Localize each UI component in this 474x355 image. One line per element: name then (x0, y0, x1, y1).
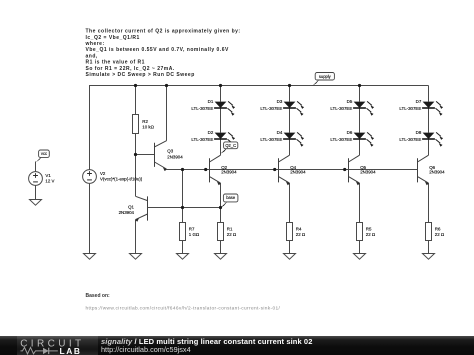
LED D2 (214, 132, 235, 147)
label R4 value (296, 226, 306, 237)
transistor Q1 (136, 196, 152, 220)
LED D5 (353, 101, 374, 116)
ground (R1) (215, 254, 227, 260)
svg-text:R1: R1 (227, 226, 233, 231)
svg-text:supply: supply (319, 74, 332, 79)
net flag vcc (36, 150, 50, 162)
wire: base rail drop (182, 170, 184, 208)
junction (219, 206, 222, 209)
label D1 value (191, 99, 213, 111)
note: based-on reference (86, 293, 281, 312)
wire: column 3 LED string (359, 86, 361, 156)
svg-text:LTL-307EE: LTL-307EE (330, 106, 352, 111)
svg-text:R6: R6 (435, 226, 441, 231)
LED D6 (353, 132, 374, 147)
svg-text:R2: R2 (142, 119, 148, 124)
wire: rail to R2 (135, 86, 137, 115)
label R1 value (227, 226, 237, 237)
svg-text:LTL-307EE: LTL-307EE (191, 106, 213, 111)
svg-text:Ic_Q2 = Vbe_Q1/R1: Ic_Q2 = Vbe_Q1/R1 (86, 35, 140, 41)
svg-text:22 Ω: 22 Ω (296, 232, 306, 237)
wire: R2 to node A (135, 134, 137, 155)
svg-text:D5: D5 (347, 99, 353, 104)
wire: column 4 LED string (428, 86, 430, 156)
svg-text:where:: where: (85, 41, 105, 47)
svg-text:Q2_C: Q2_C (225, 143, 236, 148)
svg-text:D7: D7 (416, 99, 422, 104)
label Q5 value (360, 165, 376, 175)
svg-text:Q3: Q3 (167, 149, 173, 154)
label Q6 value (429, 165, 445, 175)
svg-text:D8: D8 (416, 130, 422, 135)
svg-text:V(vcc)*(1-exp(-t/10u)): V(vcc)*(1-exp(-t/10u)) (100, 176, 143, 181)
svg-text:R4: R4 (296, 226, 302, 231)
wire: base rail Q3 emitter to Q6 base (167, 169, 418, 171)
svg-text:R5: R5 (366, 226, 372, 231)
label D8 value (399, 130, 421, 142)
net flag Q2_C (220, 142, 238, 154)
junction (165, 84, 168, 87)
junction (181, 206, 184, 209)
ground (V1) (30, 200, 42, 206)
svg-text:D1: D1 (208, 99, 214, 104)
wire: lower rail Q1 base to R1 node (148, 207, 221, 209)
LED D8 (422, 132, 443, 147)
ground (R7) (177, 254, 189, 260)
wire: column 2 LED string (289, 86, 291, 156)
svg-text:The collector current of Q2 is: The collector current of Q2 is approxima… (86, 29, 241, 35)
label D6 value (330, 130, 352, 142)
svg-text:Q1: Q1 (128, 205, 134, 210)
label D2 value (191, 130, 213, 142)
svg-text:So for R1 = 22R, Ic_Q2 ~ 27mA.: So for R1 = 22R, Ic_Q2 ~ 27mA. (86, 66, 175, 72)
ground (V2) (84, 254, 96, 260)
wire: column 1 emitter to resistor (220, 183, 222, 253)
svg-text:Vbe_Q1 is between 0.55V and 0.: Vbe_Q1 is between 0.55V and 0.7V, nomina… (86, 47, 229, 53)
svg-text:1 GΩ: 1 GΩ (189, 232, 200, 237)
junction (204, 168, 207, 171)
svg-text:2N3904: 2N3904 (290, 170, 306, 175)
net flag base (220, 194, 238, 208)
label Q3 value (167, 149, 183, 160)
voltage source V1 (29, 172, 43, 186)
wire: column 2 emitter to resistor (289, 183, 291, 253)
transistor Q5 (344, 155, 359, 183)
label R2 value (142, 119, 154, 130)
LED D1 (214, 101, 235, 116)
label Q2 value (221, 165, 237, 175)
ground (R4) (284, 254, 296, 260)
svg-text:2N3904: 2N3904 (429, 170, 445, 175)
svg-text:Based on:: Based on: (86, 293, 111, 299)
svg-text:2N3904: 2N3904 (119, 210, 135, 215)
svg-text:LTL-307EE: LTL-307EE (399, 106, 421, 111)
junction (288, 84, 291, 87)
svg-text:LTL-307EE: LTL-307EE (330, 137, 352, 142)
svg-text:12 V: 12 V (45, 178, 54, 183)
junction (219, 84, 222, 87)
label Q4 value (290, 165, 306, 175)
label D4 value (260, 130, 282, 142)
wire: R7 leads (182, 208, 184, 254)
svg-text:Simulate > DC Sweep > Run DC S: Simulate > DC Sweep > Run DC Sweep (86, 72, 195, 78)
junction (358, 84, 361, 87)
transistor Q4 (274, 155, 289, 183)
label V2 value (100, 171, 143, 182)
label R6 value (435, 226, 445, 237)
LED D4 (283, 132, 304, 147)
wire: Q3 collector to rail (166, 86, 168, 141)
junction (273, 168, 276, 171)
junction (134, 84, 137, 87)
wire: V2 top to supply rail (89, 86, 91, 170)
ground (Q1 emitter) (130, 254, 142, 260)
wire: V2 bottom to ground (89, 184, 91, 254)
wire: column 4 emitter to resistor (428, 183, 430, 253)
wire: V1 bottom lead (35, 185, 37, 199)
junction (343, 168, 346, 171)
wire: node A to Q3 base (136, 154, 155, 156)
voltage source V2 (83, 170, 97, 184)
svg-text:LTL-307EE: LTL-307EE (260, 137, 282, 142)
resistor R5 (357, 223, 363, 241)
wire: V1 top lead (35, 162, 37, 172)
label D5 value (330, 99, 352, 111)
svg-text:22 Ω: 22 Ω (366, 232, 376, 237)
label D7 value (399, 99, 421, 111)
wire: column 1 LED string (220, 86, 222, 156)
wire: Q1 emitter to ground (135, 220, 137, 254)
svg-text:V2: V2 (100, 171, 106, 176)
ground (R6) (423, 254, 435, 260)
resistor R7 (180, 223, 186, 241)
resistor R6 (426, 223, 432, 241)
svg-text:R1 is the value of R1: R1 is the value of R1 (86, 60, 145, 66)
label Q1 value (119, 205, 135, 216)
label D3 value (260, 99, 282, 111)
resistor R1 (218, 223, 224, 241)
svg-text:22 Ω: 22 Ω (435, 232, 445, 237)
net flag supply (312, 73, 334, 86)
wire: column 3 emitter to resistor (359, 183, 361, 253)
svg-text:D6: D6 (347, 130, 353, 135)
label R5 value (366, 226, 376, 237)
svg-text:V1: V1 (45, 173, 51, 178)
LED D7 (422, 101, 443, 116)
transistor Q3 (155, 141, 167, 169)
svg-text:and,: and, (86, 53, 98, 59)
svg-text:2N3904: 2N3904 (221, 170, 237, 175)
resistor R2 (133, 115, 139, 134)
svg-text:D4: D4 (277, 130, 283, 135)
ground (R5) (354, 254, 366, 260)
junction (181, 168, 184, 171)
junction (134, 153, 137, 156)
svg-text:https://www.circuitlab.com/cir: https://www.circuitlab.com/circuit/f646v… (86, 306, 281, 312)
svg-text:10 kΩ: 10 kΩ (142, 125, 154, 130)
svg-text:LTL-307EE: LTL-307EE (260, 106, 282, 111)
transistor Q2 (205, 155, 220, 183)
svg-text:22 Ω: 22 Ω (227, 232, 237, 237)
LED D3 (283, 101, 304, 116)
svg-text:2N3904: 2N3904 (167, 154, 183, 159)
svg-text:2N3904: 2N3904 (360, 170, 376, 175)
wire: top supply rail (89, 85, 429, 87)
svg-text:vcc: vcc (41, 151, 47, 156)
svg-text:LTL-307EE: LTL-307EE (191, 137, 213, 142)
label R7 value (189, 226, 200, 237)
svg-text:D3: D3 (277, 99, 283, 104)
transistor Q6 (413, 155, 428, 183)
label V1 value (45, 173, 54, 184)
svg-text:base: base (226, 195, 236, 200)
resistor R4 (287, 223, 293, 241)
note: annotation text block (85, 29, 241, 78)
svg-text:R7: R7 (189, 226, 195, 231)
svg-text:D2: D2 (208, 130, 214, 135)
wire: node A to Q1 collector (135, 155, 137, 197)
svg-text:LAB: LAB (60, 346, 82, 355)
svg-text:LTL-307EE: LTL-307EE (399, 137, 421, 142)
